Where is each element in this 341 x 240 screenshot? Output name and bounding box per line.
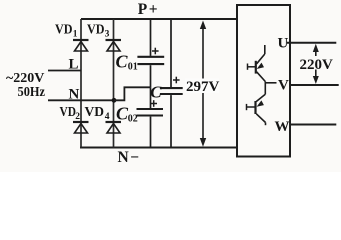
svg-text:3: 3 bbox=[105, 29, 110, 39]
svg-text:~220V: ~220V bbox=[6, 71, 44, 86]
svg-text:C: C bbox=[150, 83, 162, 102]
transistor Q2 (lower IGBT) bbox=[247, 94, 266, 125]
svg-text:C: C bbox=[116, 51, 129, 71]
wire P+ top DC bus rail bbox=[81, 18, 237, 20]
label 297V bbox=[185, 79, 220, 96]
node junction dot (N to capacitor midpoint) bbox=[112, 98, 117, 103]
svg-text:50Hz: 50Hz bbox=[18, 85, 46, 100]
diode VD1 bbox=[73, 40, 89, 51]
capacitor C01 bbox=[137, 19, 164, 87]
diode VD3 bbox=[106, 40, 122, 51]
transistor Q1 (upper IGBT) bbox=[248, 45, 266, 82]
svg-text:2: 2 bbox=[75, 112, 80, 122]
svg-text:02: 02 bbox=[128, 113, 138, 124]
svg-text:N: N bbox=[69, 87, 80, 103]
wire N- bottom DC bus rail bbox=[80, 147, 237, 149]
wire N input bbox=[48, 99, 114, 101]
diode VD2 bbox=[73, 122, 89, 133]
svg-text:VD: VD bbox=[87, 22, 105, 37]
wire midpoint link bbox=[114, 87, 151, 100]
measurement arrow 220V (U-V output voltage) bbox=[313, 44, 319, 84]
svg-text:L: L bbox=[69, 57, 79, 73]
svg-text:U: U bbox=[278, 36, 289, 52]
svg-text:220V: 220V bbox=[300, 57, 334, 73]
svg-text:V: V bbox=[278, 78, 289, 94]
svg-text:VD: VD bbox=[85, 104, 105, 119]
svg-text:1: 1 bbox=[73, 29, 78, 39]
wire W output bbox=[290, 124, 336, 126]
wire U output bbox=[287, 42, 336, 44]
svg-text:01: 01 bbox=[128, 62, 138, 73]
svg-text:297V: 297V bbox=[186, 79, 220, 95]
wire bridge left leg (VD1/VD2) bbox=[80, 19, 82, 148]
wire Q1 emitter to V terminal bbox=[265, 82, 276, 95]
svg-text:VD: VD bbox=[55, 22, 73, 37]
inverter module box bbox=[237, 5, 290, 157]
wire bridge right leg (VD3/VD4) bbox=[113, 19, 115, 148]
svg-text:4: 4 bbox=[105, 112, 110, 122]
diode VD4 bbox=[106, 122, 122, 133]
capacitor C (main filter) bbox=[160, 19, 183, 148]
capacitor C02 bbox=[137, 87, 164, 147]
measurement arrow 297V (DC bus voltage) bbox=[200, 21, 206, 147]
wire V output bbox=[290, 84, 339, 86]
svg-text:W: W bbox=[275, 119, 290, 135]
svg-text:N−: N− bbox=[118, 149, 140, 166]
label ~220V 50Hz source bbox=[6, 71, 45, 100]
svg-text:VD: VD bbox=[60, 104, 77, 119]
svg-text:P+: P+ bbox=[138, 1, 159, 18]
wire L input bbox=[48, 70, 81, 72]
